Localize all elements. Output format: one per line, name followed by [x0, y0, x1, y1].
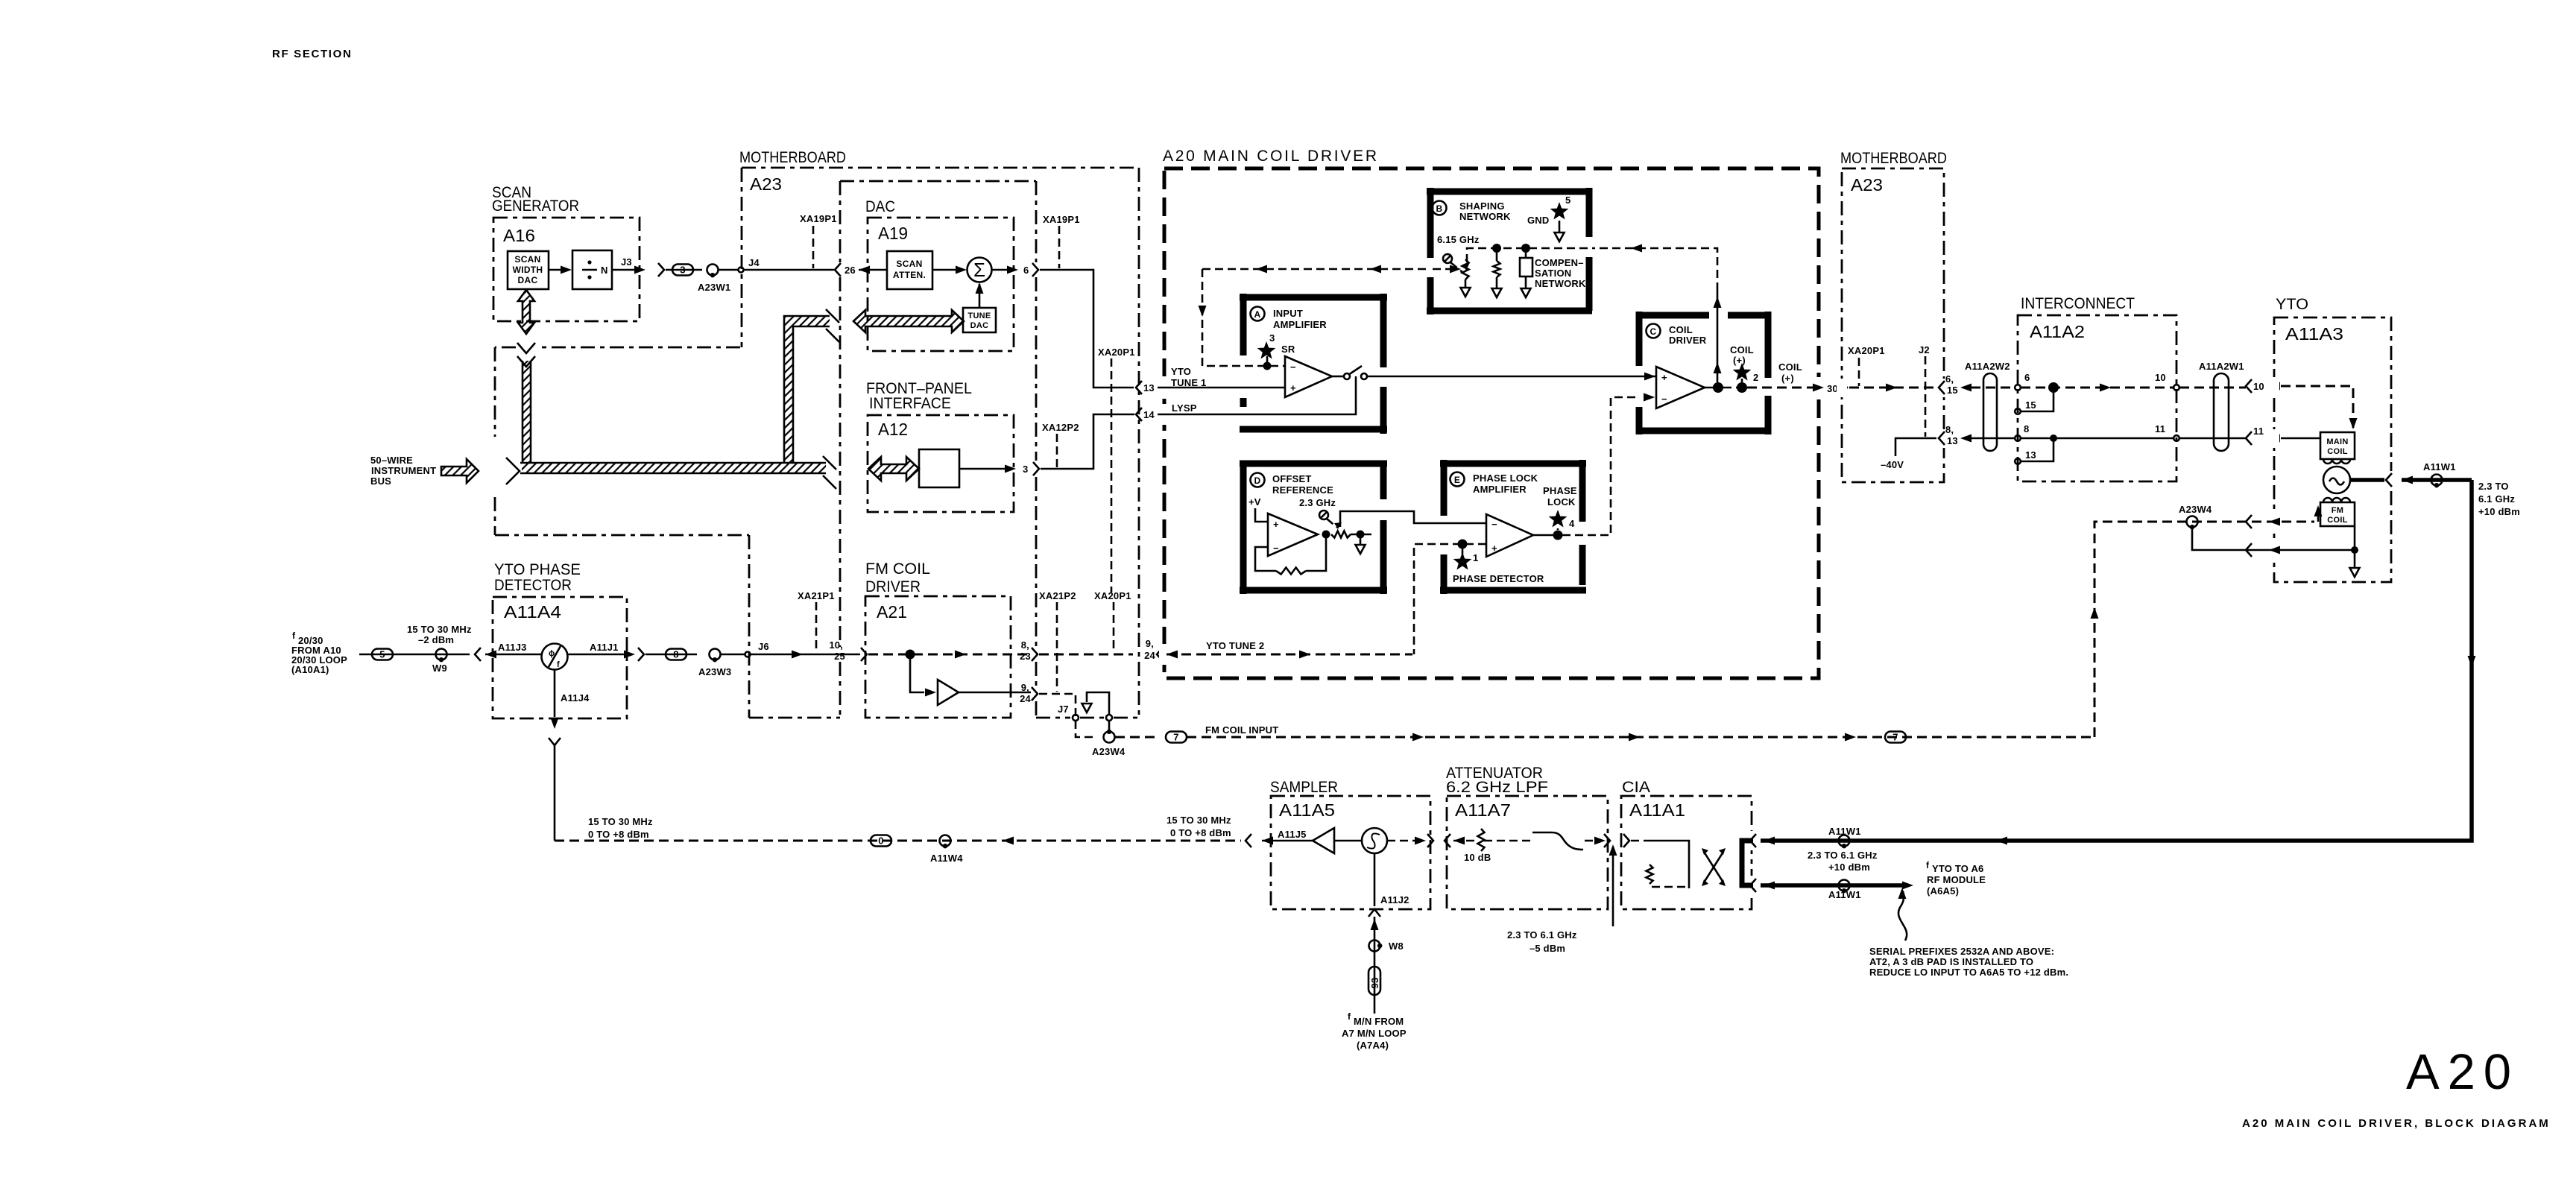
inner connector column box [840, 180, 1036, 183]
svg-text:6: 6 [2024, 372, 2030, 383]
YIG sphere oscillator [2323, 467, 2350, 493]
svg-text:SR: SR [1281, 344, 1295, 355]
tune dac double arrow [853, 310, 964, 332]
svg-text:f: f [292, 630, 296, 641]
low pass filter curve [1532, 832, 1583, 850]
svg-text:SERIAL PREFIXES 2532A AND ABOV: SERIAL PREFIXES 2532A AND ABOVE: [1869, 946, 2054, 957]
svg-text:W8: W8 [1389, 941, 1404, 952]
svg-text:+: + [1661, 372, 1667, 383]
star 2 coil [1733, 363, 1752, 381]
svg-text:10,: 10, [829, 639, 843, 651]
motherboard A23 boundary left upper [741, 168, 743, 347]
svg-text:(+): (+) [1781, 373, 1794, 384]
svg-text:RF SECTION: RF SECTION [272, 48, 351, 60]
svg-text:−: − [1491, 519, 1497, 530]
A21 amplifier branch [910, 654, 924, 692]
svg-text:11: 11 [2155, 423, 2165, 434]
wire YTO TUNE 1 to op-amp [1158, 387, 1285, 389]
svg-text:6,: 6, [1945, 373, 1954, 385]
2.3 to 6.1 GHz -5 dBm arrow [1612, 850, 1614, 926]
C output junctions [1705, 387, 1723, 389]
node J4 [719, 269, 738, 271]
svg-text:3: 3 [1023, 464, 1028, 475]
svg-text:SATION: SATION [1535, 268, 1571, 279]
bus horizontal band [522, 463, 826, 473]
label B shaping network [1433, 201, 1447, 215]
FM coil input wire [1187, 736, 2094, 739]
offset reference frame D [1240, 461, 1387, 594]
svg-text:MAIN: MAIN [2326, 437, 2348, 446]
wire 8,13 to pin 8 [1971, 437, 2015, 440]
svg-text:LOCK: LOCK [1547, 496, 1576, 508]
node J6 [721, 654, 745, 656]
star 4 phase lock [1549, 510, 1568, 528]
svg-text:6.2 GHz LPF: 6.2 GHz LPF [1446, 779, 1548, 796]
svg-text:TUNE: TUNE [967, 312, 991, 320]
cable break chevron [658, 263, 664, 276]
connector A23W3 [710, 649, 721, 660]
thick line down right side [1761, 480, 2472, 841]
CIA terminating resistor [1647, 865, 1653, 884]
svg-text:A23W3: A23W3 [698, 666, 731, 677]
wire amp to port 9,24 [959, 692, 1031, 694]
note squiggle arrow [1898, 891, 1907, 941]
CIA switch path [1631, 840, 1646, 842]
svg-text:15 TO 30 MHz: 15 TO 30 MHz [1167, 815, 1231, 826]
op-amp D [1268, 513, 1318, 556]
svg-text:25: 25 [834, 651, 845, 662]
motherboard A23 boundary jog at A16 [538, 347, 740, 349]
svg-text:7: 7 [1173, 732, 1178, 743]
svg-text:A11A5: A11A5 [1279, 800, 1335, 820]
svg-text:A12: A12 [878, 420, 908, 439]
svg-text:ϕ: ϕ [549, 649, 555, 658]
svg-text:A16: A16 [503, 226, 535, 245]
svg-text:50–WIRE: 50–WIRE [370, 455, 413, 466]
A11J4 drop [554, 669, 556, 717]
svg-text:0: 0 [878, 835, 883, 847]
svg-text:COMPEN–: COMPEN– [1535, 257, 1584, 268]
svg-text:4: 4 [1569, 518, 1575, 529]
svg-text:WIDTH: WIDTH [513, 265, 543, 275]
wire port3 to port14 (LYSP) [1041, 414, 1134, 469]
svg-text:13: 13 [1947, 435, 1958, 446]
star 1 phase detector [1453, 552, 1472, 570]
svg-text:INPUT: INPUT [1273, 308, 1303, 319]
svg-text:NETWORK: NETWORK [1535, 278, 1586, 289]
svg-text:GENERATOR: GENERATOR [492, 197, 579, 215]
svg-text:DRIVER: DRIVER [865, 578, 921, 595]
svg-text:3: 3 [680, 265, 685, 276]
svg-text:GND: GND [1527, 215, 1550, 226]
A12 interface block [919, 449, 959, 487]
potentiometer with adjust [1462, 259, 1469, 279]
svg-text:A23: A23 [1851, 175, 1883, 195]
thick A11W1 lower line [1761, 883, 1908, 888]
D output potentiometer 2.3 GHz [1322, 531, 1330, 539]
svg-text:FM: FM [2332, 506, 2343, 515]
svg-text:RF MODULE: RF MODULE [1927, 874, 1986, 885]
wires capsule to YTO ports [2179, 387, 2246, 389]
svg-text:23: 23 [1020, 651, 1031, 662]
svg-text:YTO PHASE: YTO PHASE [494, 561, 581, 578]
svg-text:AMPLIFIER: AMPLIFIER [1273, 319, 1327, 330]
connector A11W1 upper [1839, 835, 1850, 847]
svg-text:30: 30 [1827, 383, 1838, 394]
svg-text:J4: J4 [748, 257, 760, 268]
wire port10 to main coil [2281, 386, 2353, 431]
wire J3 output [612, 269, 637, 271]
svg-text:0 TO +8 dBm: 0 TO +8 dBm [588, 829, 649, 840]
svg-text:D: D [1254, 475, 1261, 486]
svg-text:XA21P1: XA21P1 [798, 590, 835, 601]
svg-text:A11A2W2: A11A2W2 [1965, 361, 2010, 372]
svg-text:A7 M/N LOOP: A7 M/N LOOP [1342, 1028, 1407, 1039]
svg-text:COIL: COIL [1669, 324, 1693, 335]
CIA output bracket [1742, 841, 1753, 885]
svg-text:AMPLIFIER: AMPLIFIER [1473, 484, 1527, 495]
attenuator resistor 10 dB [1453, 840, 1478, 842]
op-amp output and switch [1332, 376, 1343, 378]
cable number oval 5 [372, 649, 393, 660]
shunt resistor [1496, 248, 1498, 261]
feedback wire B to A [1202, 268, 1427, 271]
svg-text:A: A [1254, 309, 1261, 320]
svg-text:M/N FROM: M/N FROM [1354, 1016, 1404, 1027]
wire J6 to port 10,25 [751, 654, 860, 656]
svg-text:15 TO 30 MHz: 15 TO 30 MHz [407, 624, 472, 635]
wire pin8 to pin11 [2021, 437, 2173, 440]
svg-text:f: f [1348, 1011, 1351, 1022]
connector W9 [406, 654, 470, 656]
svg-text:(+): (+) [1733, 355, 1746, 366]
input amplifier frame A [1240, 294, 1387, 434]
svg-text:A11A1: A11A1 [1629, 800, 1685, 820]
svg-text:7: 7 [1892, 732, 1898, 743]
cable oval 93 vertical [1368, 967, 1380, 995]
svg-text:2: 2 [1753, 372, 1758, 383]
svg-text:SCAN: SCAN [514, 254, 540, 265]
svg-text:6.15 GHz: 6.15 GHz [1437, 234, 1480, 245]
svg-text:COIL: COIL [1730, 344, 1754, 355]
wire port6 to port13 (YTO TUNE 1 feed) [1040, 270, 1134, 388]
svg-text:COIL: COIL [2327, 447, 2347, 456]
wire A12 to port 3 [959, 468, 1008, 470]
op-amp C [1656, 367, 1705, 408]
svg-text:26: 26 [845, 265, 856, 276]
port 11 YTO [2246, 432, 2252, 445]
divide by N block [572, 250, 612, 289]
FM coil [2323, 498, 2350, 502]
svg-text:−: − [1661, 393, 1667, 405]
50-wire bus entry arrow [441, 459, 479, 483]
svg-text:XA19P1: XA19P1 [800, 213, 837, 224]
svg-text:J7: J7 [1058, 704, 1069, 715]
scan width dac [508, 251, 549, 289]
svg-text:W9: W9 [432, 663, 447, 674]
wire sampler out [1387, 840, 1418, 842]
pin 15 branch [2021, 388, 2053, 411]
svg-text:+10 dBm: +10 dBm [1828, 862, 1870, 873]
A16 bus double arrow [518, 290, 534, 334]
FM coil feed [2192, 521, 2314, 523]
tune dac block [963, 308, 996, 332]
svg-text:13: 13 [1143, 382, 1155, 393]
svg-text:DRIVER: DRIVER [1669, 335, 1707, 346]
bus vertical band to A16 [523, 361, 531, 463]
svg-text:24: 24 [1020, 693, 1031, 704]
svg-text:A11W4: A11W4 [930, 853, 963, 864]
wire into oval 5 [359, 654, 406, 656]
svg-text:A11A4: A11A4 [504, 602, 561, 622]
scan atten block [887, 251, 932, 289]
coil + output wire to port 30 [1747, 387, 1814, 389]
FM coil input rise to YTO [2094, 522, 2186, 737]
connector W8 [1369, 941, 1380, 952]
svg-text:2.3 TO 6.1 GHz: 2.3 TO 6.1 GHz [1507, 929, 1577, 941]
svg-text:13: 13 [2025, 449, 2036, 461]
sampler drive A11J2 [1374, 853, 1376, 906]
wire port11 to main coil [2281, 437, 2320, 440]
summing node [932, 269, 963, 271]
label E phase lock amplifier [1450, 472, 1465, 487]
label A input amplifier [1251, 307, 1265, 321]
svg-text:+V: +V [1248, 496, 1261, 508]
star 5 gnd [1550, 202, 1569, 220]
svg-text:+: + [1290, 382, 1296, 393]
svg-text:N: N [601, 265, 608, 276]
feedback dashed into minus input [1202, 269, 1285, 366]
star 3 SR [1266, 356, 1269, 366]
svg-text:24: 24 [1144, 650, 1155, 661]
svg-text:XA12P2: XA12P2 [1042, 422, 1079, 433]
svg-text:COIL: COIL [1778, 361, 1802, 373]
D feedback loop with resistor [1255, 547, 1276, 571]
A20 box outline [1164, 168, 1819, 678]
YTO RF output thick [2350, 478, 2384, 482]
pin 11 [2173, 435, 2179, 441]
svg-text:A11A7: A11A7 [1455, 800, 1511, 820]
main coil [2320, 432, 2355, 459]
bus vertical band to tune dac [784, 316, 830, 463]
svg-text:A23W1: A23W1 [698, 282, 730, 293]
CIA transfer switch cross [1704, 852, 1723, 882]
svg-text:10: 10 [2155, 372, 2166, 383]
svg-text:A11W1: A11W1 [2423, 461, 2456, 472]
ground at D output [1360, 534, 1362, 544]
svg-text:COIL: COIL [2327, 516, 2347, 525]
svg-text:3: 3 [1269, 332, 1275, 344]
cable number oval 3 [666, 269, 702, 271]
port 10 YTO [2246, 379, 2252, 393]
svg-text:A23: A23 [750, 174, 782, 194]
coil driver frame C [1636, 312, 1771, 434]
svg-text:A11W1: A11W1 [1828, 826, 1861, 837]
cable oval 8 [645, 654, 697, 656]
svg-text:8,: 8, [1945, 424, 1954, 435]
wire YTO TUNE 2 outside A20 [1039, 654, 1133, 656]
svg-text:XA20P1: XA20P1 [1094, 590, 1131, 601]
svg-text:DAC: DAC [970, 321, 989, 330]
compensation network [1525, 248, 1527, 258]
svg-text:OFFSET: OFFSET [1272, 473, 1311, 484]
svg-text:A11A2: A11A2 [2030, 322, 2085, 341]
FM coil return [2192, 527, 2352, 550]
wire J4 to port 26 [744, 269, 834, 271]
svg-text:YTO: YTO [2276, 296, 2308, 313]
svg-text:A23W4: A23W4 [1092, 746, 1126, 757]
svg-text:10 dB: 10 dB [1464, 852, 1491, 863]
svg-text:A11W1: A11W1 [1828, 889, 1861, 900]
svg-text:PHASE LOCK: PHASE LOCK [1473, 472, 1538, 484]
svg-text:MOTHERBOARD: MOTHERBOARD [1840, 150, 1947, 167]
svg-text:15 TO 30 MHz: 15 TO 30 MHz [588, 816, 653, 827]
svg-text:A11J3: A11J3 [498, 642, 527, 653]
svg-text:ATTEN.: ATTEN. [893, 270, 926, 280]
svg-text:DAC: DAC [518, 275, 538, 285]
svg-text:DETECTOR: DETECTOR [494, 577, 572, 594]
svg-text:A20: A20 [2406, 1044, 2511, 1100]
sampler amplifier [1313, 828, 1334, 853]
svg-text:A23W4: A23W4 [2179, 504, 2212, 515]
svg-text:10: 10 [2253, 381, 2264, 392]
svg-text:B: B [1436, 203, 1443, 214]
connector A11W4 [940, 835, 951, 847]
svg-text:2.3 TO 6.1 GHz: 2.3 TO 6.1 GHz [1808, 850, 1878, 861]
wire tune dac to summer [979, 284, 981, 308]
svg-text:REDUCE LO INPUT TO A6A5 TO +12: REDUCE LO INPUT TO A6A5 TO +12 dBm. [1869, 967, 2068, 978]
svg-text:+10 dBm: +10 dBm [2478, 506, 2520, 517]
svg-text:5: 5 [1565, 195, 1570, 206]
connector A23W4 [1104, 732, 1115, 743]
svg-text:A11A3: A11A3 [2285, 324, 2343, 344]
svg-text:(A10A1): (A10A1) [291, 664, 329, 675]
svg-text:LYSP: LYSP [1172, 402, 1197, 414]
wire scan width dac to divider [549, 269, 568, 271]
A12 bus double arrow [868, 457, 919, 481]
svg-text:8: 8 [2024, 423, 2029, 434]
svg-text:9,: 9, [1021, 682, 1029, 693]
phase detector input dashed [1414, 544, 1486, 654]
svg-text:INTERFACE: INTERFACE [869, 395, 951, 412]
svg-text:REFERENCE: REFERENCE [1272, 484, 1333, 496]
svg-text:f: f [1926, 860, 1930, 870]
motherboard bottom edge at J7 [1036, 717, 1140, 719]
svg-text:(A7A4): (A7A4) [1357, 1040, 1389, 1051]
bus entry break chevron [506, 458, 520, 484]
svg-text:YTO: YTO [1171, 366, 1191, 377]
wire 6,15 to pin 6 [1971, 387, 2015, 389]
svg-text:5: 5 [379, 649, 385, 660]
J7 stub to ground arrow [1087, 692, 1109, 715]
shaping net bus wire [1467, 248, 1589, 262]
motherboard A23 boundary top [742, 167, 1139, 169]
port 14 into A20 [1136, 408, 1142, 421]
pin 6 [2015, 385, 2021, 391]
main coil wire through motherboard [1849, 387, 1936, 389]
shaping network frame B [1427, 188, 1592, 314]
phase detector circle [542, 644, 568, 670]
svg-text:8: 8 [673, 649, 678, 660]
svg-text:−: − [1273, 543, 1279, 554]
pin 13 branch [2021, 438, 2053, 461]
svg-text:(A6A5): (A6A5) [1927, 885, 1959, 897]
star 3 slope recovery [1257, 341, 1276, 359]
svg-text:f: f [557, 660, 560, 669]
svg-text:J6: J6 [758, 641, 769, 652]
svg-text:8,: 8, [1021, 639, 1029, 651]
svg-text:A20 MAIN COIL DRIVER, BLOCK DI: A20 MAIN COIL DRIVER, BLOCK DIAGRAM [2242, 1117, 2548, 1130]
svg-text:A11J2: A11J2 [1380, 894, 1409, 905]
pin 8 [2015, 435, 2021, 441]
phase lock amplifier frame E [1440, 460, 1586, 594]
label D offset reference [1251, 473, 1265, 487]
svg-text:XA19P1: XA19P1 [1043, 214, 1080, 225]
svg-text:–2 dBm: –2 dBm [418, 634, 454, 645]
svg-text:YTO TO A6: YTO TO A6 [1932, 863, 1983, 874]
op-amp E [1486, 514, 1533, 557]
svg-text:E: E [1454, 475, 1460, 485]
wire summer to port 6 [991, 269, 1010, 271]
svg-text:NETWORK: NETWORK [1459, 211, 1511, 222]
wire pin6 to pin10 [2021, 387, 2173, 389]
svg-text:A11A2W1: A11A2W1 [2199, 361, 2244, 372]
svg-text:A19: A19 [878, 224, 908, 243]
svg-text:J2: J2 [1919, 344, 1930, 355]
cable oval 0 [871, 835, 891, 847]
svg-text:1: 1 [1473, 552, 1478, 563]
svg-text:+: + [1273, 519, 1279, 530]
svg-text:A11J1: A11J1 [590, 642, 619, 653]
bus band end break [823, 456, 836, 489]
svg-text:SHAPING: SHAPING [1459, 200, 1505, 212]
svg-text:XA20P1: XA20P1 [1848, 345, 1885, 356]
wiper tap to E [1340, 511, 1486, 527]
cable oval 7 right [1885, 732, 1906, 743]
pin 10 [2173, 385, 2179, 391]
svg-text:9,: 9, [1146, 638, 1154, 649]
label C coil driver [1647, 324, 1661, 338]
svg-text:C: C [1650, 326, 1657, 337]
wire port 9,24 to J7 [1039, 694, 1096, 737]
svg-text:2.3 GHz: 2.3 GHz [1299, 497, 1336, 508]
port 26 [835, 263, 841, 276]
svg-text:6.1 GHz: 6.1 GHz [2478, 493, 2515, 505]
-40V supply [1895, 438, 1936, 456]
svg-text:+: + [1491, 543, 1497, 554]
svg-text:2.3 TO: 2.3 TO [2478, 481, 2509, 492]
amplifier triangle [938, 680, 959, 705]
svg-text:–5 dBm: –5 dBm [1529, 943, 1565, 954]
break chevron and arrow into A11A4 [475, 648, 481, 661]
svg-text:SAMPLER: SAMPLER [1270, 779, 1338, 796]
svg-text:6: 6 [1023, 265, 1029, 276]
op-amp A [1285, 356, 1332, 397]
svg-text:DAC: DAC [865, 198, 895, 215]
svg-text:PHASE: PHASE [1543, 485, 1577, 496]
connector A23W1 [707, 265, 719, 276]
svg-text:FM COIL: FM COIL [865, 560, 930, 578]
svg-text:–40V: –40V [1881, 459, 1904, 470]
thick A11W1 upper line [1764, 837, 1775, 845]
star 1 phase detector [1462, 549, 1464, 554]
svg-text:15: 15 [2025, 399, 2036, 411]
motherboard A23 boundary right edge [1138, 168, 1140, 718]
svg-text:J3: J3 [621, 256, 632, 268]
svg-text:A21: A21 [877, 602, 907, 622]
svg-text:MOTHERBOARD: MOTHERBOARD [739, 149, 846, 166]
YTO TUNE 2 from E input node [1167, 654, 1412, 656]
